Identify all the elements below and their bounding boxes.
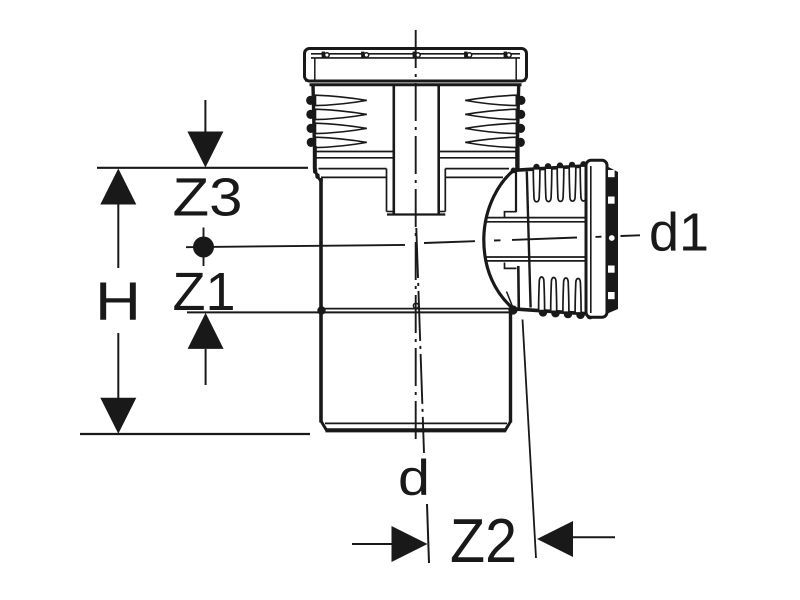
branch inner wall bottom inner	[486, 256, 586, 258]
ledge bottom tick left	[387, 211, 395, 213]
cap lug 4	[464, 52, 472, 59]
cap inner wall right	[515, 58, 517, 81]
socket mouth right outer edge	[515, 147, 519, 169]
rib leaf right 2	[465, 109, 516, 119]
Z2 right arrow	[537, 521, 573, 557]
spigot mouth line	[387, 213, 445, 215]
branch step tick bottom	[505, 263, 517, 269]
pipe bottom inner line	[325, 422, 507, 424]
cap face notch 4	[608, 292, 615, 299]
branch hub curve	[484, 171, 514, 309]
flange inner line	[590, 166, 592, 313]
node circle	[193, 237, 214, 258]
ledge vertical left	[386, 169, 388, 212]
rib leaf left 2	[316, 109, 367, 119]
pipe bottom edge	[326, 428, 507, 432]
right edge bump dots	[516, 96, 525, 147]
branch rib bottom 4	[575, 279, 581, 314]
ledge line right upper	[445, 168, 509, 170]
rib section bottom line upper right	[440, 151, 516, 153]
ledge bottom tick right	[439, 211, 446, 213]
seam end blob left	[317, 306, 325, 314]
outlet axis tick below d	[427, 504, 429, 563]
branch end cap flange	[586, 160, 607, 317]
cap lug 2	[361, 52, 369, 59]
Z2 right extension line	[523, 320, 537, 559]
branch axis dash 3 d1 leader	[621, 234, 641, 237]
Z2 right arrow stem	[572, 536, 615, 538]
bottom reference line	[80, 433, 310, 435]
seam lower line / Z1 reference line	[187, 311, 511, 313]
branch axis dash 2	[512, 238, 577, 240]
rib leaf left 3	[316, 123, 367, 133]
branch hub top junction blob	[511, 168, 517, 174]
main pipe right wall	[509, 309, 512, 423]
branch axis dot 2	[596, 236, 602, 238]
branch rib bottom 2	[551, 278, 557, 312]
cap lug 5	[504, 52, 512, 59]
Z2 left arrow	[392, 526, 428, 562]
branch rib top 3	[557, 167, 564, 201]
ledge line left lower	[321, 176, 387, 178]
seam end blob right	[508, 305, 517, 314]
rib section bottom line lower left	[316, 157, 393, 159]
branch inner wall bottom outer	[487, 260, 587, 262]
svg-text:Z3: Z3	[173, 168, 243, 228]
branch socket bottom edge	[512, 309, 588, 314]
rib leaf right 3	[465, 123, 516, 133]
branch inner wall top outer	[487, 217, 587, 219]
Z1 up arrow	[188, 313, 224, 349]
branch axis line left solid part	[186, 245, 405, 247]
main pipe left wall	[319, 178, 323, 423]
branch axis dash 1	[424, 241, 475, 243]
seam upper line	[323, 308, 511, 310]
svg-text:Z1: Z1	[173, 262, 236, 322]
H dimension upper arrow	[100, 169, 136, 205]
branch rib top 2	[545, 168, 552, 202]
cap skirt	[310, 83, 522, 86]
H dimension lower stem	[117, 333, 119, 398]
cap rim line lower	[311, 57, 520, 59]
ledge line right lower	[445, 176, 503, 178]
rib leaf right 1	[465, 95, 516, 105]
branch cap face dark band	[608, 167, 619, 314]
branch rib top 4	[569, 167, 576, 202]
branch socket left wall lower	[517, 266, 520, 309]
cap lug 1	[322, 52, 330, 59]
branch inner wall top inner	[486, 221, 586, 223]
ledge vertical right	[444, 169, 446, 212]
cap lug 3	[413, 52, 421, 59]
H dimension upper stem	[117, 204, 119, 269]
node vertical tick	[203, 228, 205, 267]
socket mouth left flare foot	[313, 169, 323, 182]
cap face notch 2	[608, 197, 615, 204]
rib section bottom line lower right	[440, 157, 516, 159]
H dimension lower arrow	[100, 398, 136, 434]
cap bottom line	[305, 80, 526, 82]
seam small circle on centerline	[413, 303, 418, 308]
branch depth mark vertical	[527, 172, 531, 308]
top socket ribbed body right edge	[517, 85, 518, 148]
pipe bottom chamfer left	[321, 422, 327, 432]
top socket cap outline	[305, 49, 527, 82]
cap rim line upper	[311, 53, 520, 55]
slanted outlet axis line	[416, 228, 424, 453]
pipe bottom chamfer right	[505, 422, 511, 432]
branch step tick top	[505, 212, 517, 218]
branch rib top 1	[533, 169, 540, 202]
branch socket left wall upper	[515, 170, 517, 212]
svg-text:Z2: Z2	[450, 507, 517, 576]
branch rib bottom 1	[539, 277, 545, 311]
Z3 down arrow	[187, 132, 223, 168]
branch socket top edge	[512, 166, 588, 171]
hub inner thin line	[507, 292, 513, 307]
cap face center hole	[609, 235, 615, 241]
Z1 arrow stem	[205, 349, 207, 385]
cap face notch 3	[608, 266, 615, 273]
cap inner wall left	[314, 58, 316, 81]
inner spigot wall right	[437, 85, 440, 214]
svg-text:d: d	[398, 450, 430, 506]
top reference line	[97, 167, 308, 169]
svg-text:H: H	[95, 272, 141, 332]
rib leaf left 4	[316, 137, 367, 147]
branch bottom bump dots	[539, 309, 594, 319]
vertical centerline	[415, 30, 417, 443]
left edge bump dots	[306, 96, 315, 147]
branch rib bottom 3	[563, 278, 569, 312]
branch top bump dots	[533, 161, 586, 170]
socket mouth left outer edge	[313, 146, 317, 169]
svg-text:d1: d1	[649, 203, 709, 263]
rib leaf right 4	[465, 137, 516, 147]
branch rib top 5	[580, 166, 587, 201]
top socket ribbed body left edge	[313, 85, 314, 147]
rib section bottom line upper left	[316, 151, 393, 153]
ledge line left upper	[319, 168, 387, 170]
cap face notch 1	[608, 170, 615, 177]
Z2 left arrow stem	[352, 543, 393, 545]
rib leaf left 1	[316, 95, 367, 105]
Z3 arrow stem	[204, 100, 206, 136]
branch axis dot 1	[494, 239, 501, 241]
inner spigot wall left	[392, 85, 395, 214]
